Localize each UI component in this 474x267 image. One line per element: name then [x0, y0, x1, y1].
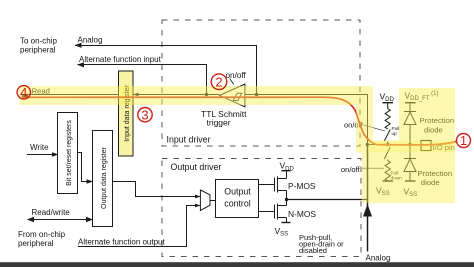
bottom bar — [0, 262, 474, 267]
op-amp U1 TTL Schmitt trigger — [220, 84, 245, 107]
node analog tap — [255, 93, 258, 96]
highlight band horizontal — [19, 86, 455, 203]
wire pin line from schmitt input to I/O pin — [245, 95, 421, 145]
mux — [200, 190, 210, 211]
resistor pull-down with switch — [384, 147, 390, 181]
power VDD (output driver) — [282, 170, 291, 172]
annotation circle 2 — [211, 74, 227, 90]
node mos drain junction — [285, 198, 288, 201]
output driver dashed box — [162, 159, 361, 257]
wire output stage to pin column — [287, 199, 368, 201]
svg-text:P-MOS: P-MOS — [288, 181, 316, 191]
svg-text:VDD: VDD — [380, 92, 395, 104]
svg-text:up: up — [392, 132, 398, 137]
resistor pull-up with switch — [384, 103, 390, 145]
register: bit set/reset registers — [58, 113, 78, 194]
svg-text:Write: Write — [30, 143, 49, 152]
svg-text:VSS: VSS — [275, 226, 289, 238]
svg-text:3: 3 — [141, 107, 148, 122]
annotation circle 4 — [17, 86, 30, 99]
power VDD (pull-up) — [383, 102, 394, 104]
node AFI tap — [205, 93, 208, 96]
svg-text:Analog: Analog — [366, 254, 391, 263]
svg-text:Alternate function input: Alternate function input — [79, 55, 162, 64]
svg-text:Analog: Analog — [78, 35, 103, 44]
wire read — [21, 94, 119, 96]
svg-text:Output driver: Output driver — [171, 162, 222, 172]
svg-text:on/off: on/off — [226, 71, 247, 80]
node diode tap — [408, 143, 412, 147]
wire bit set/reset to output data register — [78, 153, 89, 182]
svg-text:1: 1 — [460, 133, 467, 148]
diode protection bottom — [404, 145, 416, 182]
wire alternate function input — [78, 65, 207, 95]
wire mux to output control — [210, 200, 216, 202]
wire gate drives — [259, 185, 275, 212]
svg-text:Output data register: Output data register — [101, 146, 108, 209]
node pull-up tap — [386, 143, 390, 147]
svg-text:N-MOS: N-MOS — [288, 209, 316, 219]
svg-text:Output: Output — [224, 187, 251, 197]
svg-text:control: control — [224, 199, 250, 209]
wire trigger output to input data register — [133, 94, 220, 96]
wire analog vertical — [367, 145, 369, 252]
power VDD_FT — [405, 102, 416, 104]
svg-text:Alternate function output: Alternate function output — [78, 237, 166, 246]
register: output data register — [93, 131, 113, 227]
svg-text:trigger: trigger — [207, 118, 231, 128]
annotation circle 1 — [17, 74, 470, 148]
ground VSS (pull-down) — [383, 180, 394, 182]
svg-text:To on-chip: To on-chip — [20, 36, 57, 45]
transistor P-MOS — [275, 171, 287, 200]
block output control — [216, 180, 259, 218]
highlight pin band deepening — [368, 141, 455, 153]
svg-text:Bit set/reset registers: Bit set/reset registers — [66, 120, 73, 186]
svg-text:on/off: on/off — [341, 165, 361, 174]
diode protection top — [404, 103, 416, 145]
node pin junction — [366, 143, 370, 147]
I/O pin pad — [421, 141, 431, 151]
red annotation path read route — [22, 97, 457, 145]
svg-text:4: 4 — [20, 85, 27, 100]
svg-text:From on-chip: From on-chip — [18, 230, 66, 239]
svg-text:disabled: disabled — [299, 246, 327, 255]
svg-text:peripheral: peripheral — [18, 239, 54, 248]
svg-text:peripheral: peripheral — [20, 45, 56, 54]
svg-text:VDD: VDD — [280, 161, 295, 173]
svg-text:Read/write: Read/write — [32, 208, 71, 217]
annotation circle 3 — [138, 108, 152, 122]
input driver dashed box — [162, 20, 360, 146]
register: input data register (highlighted) — [119, 71, 134, 156]
transistor N-MOS — [275, 200, 287, 223]
ground VSS (output driver) — [282, 222, 291, 224]
ground VSS (bottom diode) — [405, 180, 416, 182]
wire output data register to mux — [113, 182, 201, 197]
wire read/write — [28, 219, 93, 221]
svg-text:2: 2 — [215, 74, 222, 89]
wire write — [27, 154, 58, 156]
wire analog (top) — [75, 46, 257, 95]
wire alternate function output — [78, 206, 200, 247]
svg-text:Input driver: Input driver — [167, 135, 211, 145]
